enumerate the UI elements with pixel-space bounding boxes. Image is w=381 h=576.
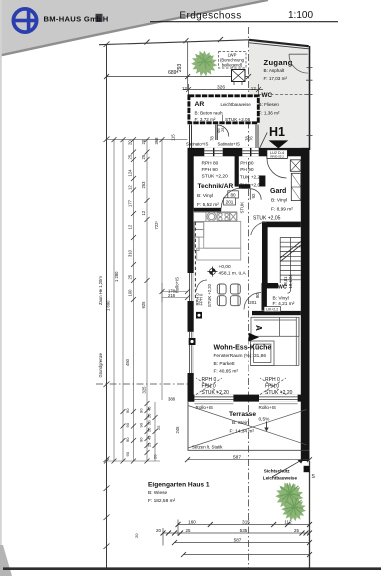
svg-text:25: 25 <box>147 413 152 418</box>
svg-text:25: 25 <box>294 528 299 533</box>
svg-text:B: Fliesen: B: Fliesen <box>259 102 280 107</box>
svg-text:587: 587 <box>234 537 242 542</box>
svg-text:B: Asphalt: B: Asphalt <box>264 68 285 73</box>
svg-text:201: 201 <box>249 300 257 305</box>
svg-text:H1: H1 <box>269 125 285 139</box>
svg-text:20: 20 <box>156 528 161 533</box>
svg-text:Satinato+IS: Satinato+IS <box>186 141 208 146</box>
svg-text:Setzen lt. Statik: Setzen lt. Statik <box>192 444 223 449</box>
svg-text:458,1 m. ü.A: 458,1 m. ü.A <box>219 270 247 276</box>
svg-text:RPH 0: RPH 0 <box>265 377 280 383</box>
svg-text:STUK +2,20: STUK +2,20 <box>207 283 212 307</box>
svg-text:1:100: 1:100 <box>288 10 313 21</box>
svg-text:WC: WC <box>278 284 287 290</box>
svg-text:80: 80 <box>230 193 236 198</box>
svg-text:AR: AR <box>195 101 205 108</box>
svg-text:TUK +2,05: TUK +2,05 <box>240 183 263 189</box>
svg-text:25: 25 <box>141 154 146 159</box>
svg-text:RPH 80: RPH 80 <box>202 160 219 166</box>
svg-text:124: 124 <box>128 169 133 177</box>
svg-text:535: 535 <box>240 528 248 533</box>
svg-text:450: 450 <box>125 358 130 366</box>
svg-text:388: 388 <box>168 397 176 402</box>
svg-text:A: A <box>254 325 263 331</box>
svg-text:Zaun He 1,20m: Zaun He 1,20m <box>98 276 103 305</box>
svg-text:92: 92 <box>251 193 256 198</box>
svg-text:F: 8,99 m²: F: 8,99 m² <box>271 207 293 213</box>
svg-text:WC: WC <box>262 92 273 99</box>
svg-text:90: 90 <box>125 408 130 413</box>
svg-text:18,4/24: 18,4/24 <box>288 274 293 289</box>
svg-text:45: 45 <box>147 406 152 411</box>
svg-text:78: 78 <box>210 136 215 141</box>
svg-text:925: 925 <box>141 301 146 309</box>
svg-text:80: 80 <box>255 293 260 298</box>
svg-text:177: 177 <box>128 199 133 207</box>
svg-text:90: 90 <box>139 422 144 427</box>
svg-text:25: 25 <box>220 127 225 132</box>
svg-text:RF80 05 2: RF80 05 2 <box>270 155 284 159</box>
svg-text:325: 325 <box>142 386 147 394</box>
svg-text:LIK+2,2: LIK+2,2 <box>266 307 278 311</box>
svg-text:Terrasse: Terrasse <box>229 411 256 418</box>
svg-text:F: 182,58 m²: F: 182,58 m² <box>148 498 176 504</box>
svg-text:20: 20 <box>141 139 146 144</box>
svg-text:722⁵: 722⁵ <box>154 221 159 230</box>
svg-text:F: 1,36 m²: F: 1,36 m² <box>259 110 280 115</box>
svg-text:90: 90 <box>125 422 130 427</box>
svg-text:90: 90 <box>139 437 144 442</box>
svg-text:b: b <box>96 14 101 23</box>
svg-text:beiliegend): beiliegend) <box>222 62 243 67</box>
svg-text:90: 90 <box>139 408 144 413</box>
svg-text:293: 293 <box>177 63 183 72</box>
svg-text:Grundgrenze: Grundgrenze <box>98 352 103 377</box>
svg-text:TUK +2,20: TUK +2,20 <box>240 175 263 181</box>
svg-text:Technik/AR: Technik/AR <box>198 183 234 190</box>
svg-text:F: 5,52 m²: F: 5,52 m² <box>197 202 219 208</box>
svg-text:1 690: 1 690 <box>106 300 111 311</box>
svg-text:115: 115 <box>171 134 176 141</box>
svg-text:90: 90 <box>125 451 130 456</box>
svg-text:B: Parkett: B: Parkett <box>214 361 236 367</box>
svg-text:F: 3,72 m²: F: 3,72 m² <box>195 117 216 122</box>
svg-text:FensterRaum (%): 31,86: FensterRaum (%): 31,86 <box>214 353 267 359</box>
svg-text:B: Stein: B: Stein <box>232 420 249 426</box>
svg-text:Eigengarten Haus 1: Eigengarten Haus 1 <box>148 482 210 489</box>
svg-text:201: 201 <box>226 200 234 205</box>
svg-text:B: Vinyl: B: Vinyl <box>273 296 289 302</box>
svg-text:STUK +2,20: STUK +2,20 <box>265 390 293 396</box>
svg-text:Wohn-Ess-Küche: Wohn-Ess-Küche <box>214 345 272 352</box>
svg-text:326: 326 <box>217 84 225 90</box>
svg-text:20: 20 <box>147 420 152 425</box>
svg-text:STUK +2,20: STUK +2,20 <box>202 390 230 396</box>
svg-text:20: 20 <box>134 533 139 538</box>
svg-text:Rollo+IS: Rollo+IS <box>175 277 180 293</box>
svg-text:FPH 0: FPH 0 <box>199 293 204 306</box>
svg-text:STUK +2,05: STUK +2,05 <box>253 216 281 222</box>
svg-text:Leichtbauweise: Leichtbauweise <box>221 102 252 107</box>
svg-text:112: 112 <box>284 519 292 524</box>
svg-text:587: 587 <box>233 454 241 460</box>
svg-text:25: 25 <box>128 154 133 159</box>
svg-text:PH 90: PH 90 <box>240 167 254 173</box>
svg-text:315: 315 <box>242 519 250 524</box>
svg-text:F: 17,03 m²: F: 17,03 m² <box>264 76 288 81</box>
svg-text:Gard: Gard <box>270 188 286 195</box>
svg-text:Rollo+IS: Rollo+IS <box>259 405 277 410</box>
svg-text:B: Wiese: B: Wiese <box>148 490 168 496</box>
svg-text:F: 14,34 m²: F: 14,34 m² <box>230 428 255 434</box>
svg-text:PH 80: PH 80 <box>240 161 254 167</box>
svg-text:Erdgeschoss: Erdgeschoss <box>179 11 241 22</box>
svg-text:25: 25 <box>147 442 152 447</box>
svg-text:B: Vinyl: B: Vinyl <box>271 198 287 204</box>
svg-text:F: 40,65 m²: F: 40,65 m² <box>214 369 239 375</box>
svg-text:B: Vinyl: B: Vinyl <box>197 193 213 199</box>
svg-text:25: 25 <box>147 427 152 432</box>
svg-text:100: 100 <box>128 289 133 297</box>
svg-text:+0,00: +0,00 <box>219 264 231 270</box>
svg-text:12: 12 <box>128 224 133 229</box>
svg-text:25: 25 <box>156 425 161 430</box>
svg-text:12: 12 <box>251 86 257 91</box>
svg-text:90: 90 <box>125 437 130 442</box>
svg-text:160: 160 <box>188 519 196 524</box>
svg-text:1 280: 1 280 <box>114 271 119 282</box>
svg-text:25: 25 <box>128 274 133 279</box>
svg-text:RPH 0: RPH 0 <box>202 377 217 383</box>
svg-text:Leichtbauweise: Leichtbauweise <box>263 475 298 480</box>
svg-text:368: 368 <box>154 137 159 145</box>
svg-text:12: 12 <box>182 86 188 91</box>
svg-text:310: 310 <box>128 249 133 257</box>
svg-text:12: 12 <box>128 185 133 190</box>
svg-text:BM-HAUS Gm: BM-HAUS Gm <box>44 14 98 23</box>
svg-text:Satinato+IS: Satinato+IS <box>218 141 240 146</box>
svg-text:S: S <box>312 474 316 480</box>
svg-text:45: 45 <box>147 435 152 440</box>
svg-text:Sichtschutz: Sichtschutz <box>264 469 290 474</box>
svg-text:245: 245 <box>175 426 180 434</box>
svg-text:76: 76 <box>248 136 253 141</box>
svg-text:25: 25 <box>186 528 191 533</box>
svg-text:H: H <box>103 14 108 23</box>
svg-text:12: 12 <box>141 210 146 215</box>
svg-text:STUK +2,05: STUK +2,05 <box>225 117 251 122</box>
svg-text:B: Beton rauh: B: Beton rauh <box>195 110 224 115</box>
svg-text:253: 253 <box>141 181 146 189</box>
svg-text:STUK: STUK <box>240 202 245 214</box>
svg-text:20: 20 <box>153 454 158 459</box>
svg-text:0,5%: 0,5% <box>259 417 271 423</box>
svg-text:FPH 90: FPH 90 <box>202 167 219 173</box>
svg-text:STUK +2,20: STUK +2,20 <box>202 173 229 179</box>
svg-text:Zugang: Zugang <box>264 58 293 67</box>
svg-text:20: 20 <box>128 140 133 145</box>
